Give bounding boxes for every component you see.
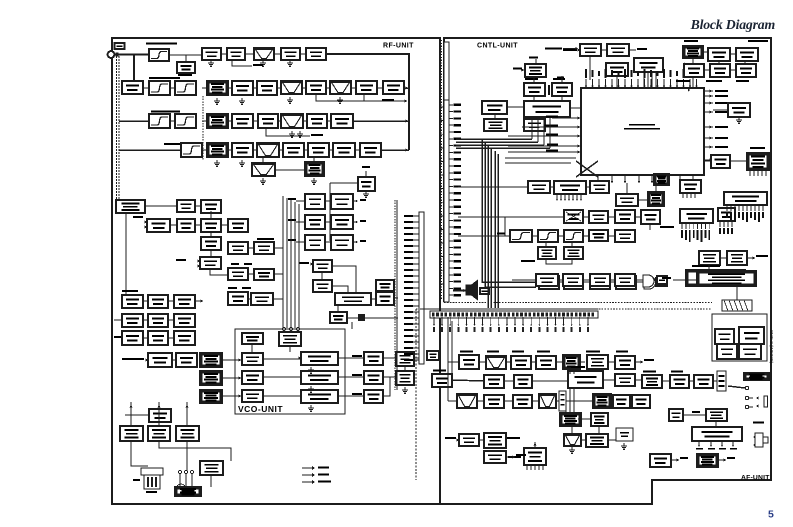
antenna circle bbox=[108, 51, 115, 58]
shift register R1 bbox=[680, 209, 713, 223]
dc reg bbox=[524, 119, 545, 131]
limiter amp bbox=[613, 395, 630, 408]
svg-text:5: 5 bbox=[768, 509, 774, 521]
MPU top pins bbox=[585, 79, 587, 88]
M3 bbox=[174, 295, 195, 308]
tx-rx R bbox=[718, 208, 735, 221]
RF amp A1 bbox=[202, 48, 221, 60]
D sub box bbox=[305, 162, 324, 176]
filter D sub bbox=[252, 163, 275, 176]
svg-text:Block Diagram: Block Diagram bbox=[690, 17, 776, 32]
tx-rx R pins bbox=[719, 221, 721, 227]
shift register R1 pins bbox=[681, 223, 683, 229]
jack pins bbox=[179, 471, 182, 474]
tx-rx af3 bbox=[514, 375, 532, 388]
R1a bbox=[305, 194, 325, 209]
af bus top wire bbox=[420, 308, 598, 310]
RF amp C bbox=[258, 114, 278, 128]
two cntl bbox=[524, 83, 545, 96]
af small bbox=[657, 276, 667, 284]
vco A bbox=[242, 353, 263, 365]
MPU right arrows bbox=[704, 90, 713, 92]
dark top bbox=[654, 174, 669, 185]
shift register vco bbox=[242, 333, 263, 344]
adjust unit bl bbox=[149, 409, 171, 422]
feed connector square bbox=[115, 53, 118, 57]
PLL bus wires bbox=[456, 138, 532, 140]
vco C bbox=[242, 390, 263, 402]
connector J2 upper part bbox=[444, 42, 449, 100]
tx-rx right A bbox=[396, 352, 414, 366]
dotted vertical col bbox=[202, 96, 204, 160]
svg-text:RF-UNIT: RF-UNIT bbox=[383, 43, 414, 50]
af top1 bbox=[536, 274, 558, 286]
loop filter A bbox=[364, 352, 383, 365]
M4 bbox=[122, 314, 143, 327]
tr2 bbox=[736, 48, 758, 61]
tx-rx 5 bbox=[564, 247, 583, 259]
band sw C bbox=[207, 114, 228, 128]
L8 bbox=[200, 257, 221, 269]
af r1 bbox=[563, 355, 580, 369]
volt reg bbox=[539, 276, 559, 289]
RF amp B2 bbox=[306, 81, 326, 94]
power conn af bbox=[697, 271, 756, 286]
L4 bbox=[228, 219, 248, 232]
data connector bbox=[747, 153, 769, 170]
filter C1 bbox=[149, 114, 170, 128]
buffer amp cntl bbox=[616, 194, 638, 206]
battery cells bbox=[144, 475, 160, 489]
low batt pins bbox=[682, 193, 684, 198]
duplexer bbox=[739, 327, 764, 344]
filter B2 bbox=[175, 81, 196, 95]
key light bbox=[528, 181, 550, 193]
dc amp bbox=[525, 64, 546, 77]
keyboard cpu bbox=[524, 101, 570, 117]
SP connector bbox=[717, 371, 726, 391]
connector J2 CNTL side bbox=[444, 100, 449, 302]
pa upper box bbox=[376, 280, 394, 291]
mixer L1 bbox=[147, 219, 170, 232]
filter C2 bbox=[175, 114, 196, 128]
key cntl bbox=[552, 83, 572, 96]
L9 bbox=[228, 268, 248, 280]
dc reg 2 bbox=[564, 276, 583, 289]
A5 bbox=[306, 48, 326, 60]
filter C3 bbox=[281, 114, 303, 128]
cntl top2 bbox=[607, 44, 629, 56]
mic filter 2 bbox=[148, 426, 170, 441]
tx-rx left C bbox=[200, 390, 222, 403]
RF amp A2 bbox=[227, 48, 245, 60]
power connector bbox=[686, 270, 745, 286]
speaker jack pins bbox=[745, 386, 748, 389]
M6 bbox=[174, 314, 195, 327]
low batt bbox=[680, 180, 701, 193]
MPU bottom pins bbox=[597, 175, 599, 183]
squelch sw bbox=[560, 413, 581, 426]
tx-rx dup bbox=[715, 329, 734, 344]
limiter af3 bbox=[484, 395, 504, 408]
M9 bbox=[174, 331, 195, 345]
limiter cntl bbox=[580, 44, 601, 56]
R2b bbox=[331, 215, 353, 229]
af mute bbox=[591, 413, 608, 426]
svg-text:VCO-UNIT: VCO-UNIT bbox=[238, 404, 283, 414]
speaker symbol mid bbox=[467, 286, 472, 295]
band sw D bbox=[207, 143, 228, 157]
X crossing bbox=[576, 161, 598, 177]
tx-rx af2 bbox=[432, 374, 452, 387]
mic amp bl2 bbox=[484, 451, 506, 463]
R3a bbox=[305, 235, 325, 250]
loop filter B bbox=[364, 371, 383, 384]
shift dark bbox=[648, 192, 664, 206]
vertical feed dotted 1 bbox=[116, 56, 118, 200]
ground under xtal bbox=[365, 191, 367, 194]
buffer amp2 bbox=[589, 211, 608, 223]
pre emphasis bbox=[524, 448, 546, 465]
data conn pins bbox=[749, 170, 751, 176]
wire to ant swt bbox=[115, 200, 118, 202]
rf sw 1 bbox=[177, 200, 195, 212]
duplexer block bbox=[712, 314, 767, 361]
limiter B bbox=[232, 81, 253, 95]
AF bus pins bbox=[433, 317, 435, 325]
tx-rx sw bbox=[313, 260, 332, 272]
br1 bbox=[699, 251, 720, 265]
mixer B bbox=[356, 81, 377, 94]
mixer C bbox=[307, 114, 327, 128]
AF VOL vertical connector bbox=[559, 391, 566, 411]
adjust A bbox=[177, 62, 195, 73]
B out bbox=[383, 81, 404, 94]
CNTL-UNIT border bbox=[112, 38, 771, 504]
compressor bbox=[484, 433, 506, 448]
filter B4 bbox=[330, 81, 351, 94]
af top2 bbox=[563, 274, 583, 286]
battery connector bbox=[141, 468, 163, 475]
AF-UNIT dashed border bbox=[415, 309, 417, 480]
MIC vertical box bbox=[616, 428, 633, 441]
trio junction bus bbox=[329, 183, 331, 241]
af trap bottom bbox=[564, 434, 581, 446]
MPU left arrows bbox=[552, 117, 581, 119]
tx-rx right mpu bbox=[728, 103, 750, 117]
mixer A4 bbox=[281, 48, 300, 60]
band sw B bbox=[207, 81, 228, 95]
squelch bbox=[459, 355, 479, 369]
wire parallel control bus bbox=[282, 196, 284, 328]
af top4 bbox=[615, 274, 635, 286]
pre emphasis pins bbox=[526, 465, 528, 470]
D2 bbox=[232, 143, 253, 157]
shift reg pins down bbox=[556, 194, 558, 200]
tone filter 3 bbox=[564, 230, 583, 242]
tr4 bbox=[710, 64, 730, 77]
small out bbox=[656, 278, 667, 286]
rx voltage B bbox=[301, 371, 338, 384]
svg-text:SME-2 (WE23B): SME-2 (WE23B) bbox=[769, 330, 774, 364]
af amp big bbox=[568, 371, 603, 388]
L6 bbox=[228, 242, 248, 254]
dotted vertical bbox=[394, 200, 396, 390]
L11 bbox=[228, 292, 248, 305]
M5 bbox=[148, 314, 168, 327]
af r2b bbox=[615, 374, 635, 386]
L12 bbox=[251, 293, 273, 305]
antenna connector hatched bbox=[722, 300, 752, 311]
filter B1 bbox=[149, 81, 170, 95]
af out bbox=[615, 356, 635, 369]
MPU bottom feed wires bbox=[626, 183, 628, 194]
pwr cntl bbox=[616, 276, 636, 289]
antenna sw bbox=[717, 344, 737, 359]
xtal osc bbox=[683, 46, 703, 58]
af amp 2 bbox=[670, 375, 689, 388]
af power amp bbox=[692, 427, 742, 441]
speaker jack label bbox=[744, 373, 769, 380]
D5 bbox=[308, 143, 329, 157]
mode sw bbox=[615, 210, 635, 223]
tx-rx mid bbox=[590, 181, 609, 193]
label to limiter bbox=[545, 48, 562, 50]
buffer amp vco bbox=[279, 332, 301, 346]
mic filter 3 bbox=[176, 426, 199, 441]
filter D3 bbox=[257, 143, 279, 157]
tx-rx 2 bbox=[711, 155, 730, 168]
spk box bbox=[480, 288, 489, 294]
dark connector square bbox=[358, 314, 365, 321]
dotted gap line RF-CNTL bbox=[441, 40, 443, 300]
af filt r3 bbox=[457, 394, 477, 408]
tx-rx af r3 bbox=[593, 394, 611, 408]
tx-rx left B bbox=[200, 371, 222, 385]
R3b bbox=[331, 235, 353, 250]
tx-rx right B bbox=[396, 371, 414, 385]
AF horizontal bus bbox=[430, 311, 598, 318]
attenuator bbox=[642, 375, 662, 388]
af r2a bbox=[484, 375, 504, 388]
angle adj bbox=[148, 353, 172, 367]
L7 bbox=[254, 242, 274, 254]
AND gate bbox=[644, 276, 656, 289]
legend arrows bbox=[302, 467, 313, 469]
C out bbox=[331, 114, 353, 128]
thermistor bbox=[122, 81, 143, 94]
wire ant to filter bbox=[114, 54, 149, 56]
R1b bbox=[331, 194, 353, 209]
dup2 bbox=[739, 344, 761, 359]
sp mic jack bbox=[175, 487, 201, 496]
D7 bbox=[360, 143, 381, 157]
vertical feed solid bbox=[133, 55, 135, 82]
svg-text:AF-UNIT: AF-UNIT bbox=[741, 475, 770, 482]
beep bbox=[669, 409, 683, 421]
shift reg driver bbox=[554, 181, 586, 194]
junction circles on VCO top bbox=[282, 327, 285, 330]
af power amp pins bbox=[698, 441, 700, 446]
filter A3 bbox=[254, 48, 274, 60]
af left vertical bbox=[447, 317, 449, 401]
VCO-UNIT border bbox=[235, 329, 345, 414]
amp sw bbox=[706, 409, 727, 421]
af filt r3b bbox=[539, 394, 556, 408]
wire vertical x397 bbox=[396, 200, 398, 390]
volume bbox=[513, 395, 532, 408]
ptt sw bbox=[650, 454, 671, 467]
pa unit bbox=[376, 292, 394, 305]
mic filter 1 bbox=[120, 426, 143, 441]
row A out wire bbox=[326, 54, 409, 150]
R2a bbox=[305, 215, 325, 229]
tx-rx left A bbox=[200, 353, 222, 367]
limiter2 bbox=[564, 210, 583, 223]
lcd vram bbox=[482, 101, 507, 114]
speaker amp bbox=[694, 375, 713, 388]
mic amp bl bbox=[459, 434, 479, 446]
br2 bbox=[727, 251, 747, 265]
tx-rx3 bbox=[641, 210, 660, 224]
M1 bbox=[122, 295, 143, 308]
lcd led driver bbox=[484, 119, 507, 131]
wire ant swt down bbox=[125, 213, 127, 295]
ANT box bbox=[115, 43, 125, 49]
L3 bbox=[201, 219, 221, 232]
tone filter 1 bbox=[510, 230, 532, 242]
tx-rx mute bbox=[586, 434, 608, 447]
xtal mid bbox=[358, 177, 375, 191]
D4 bbox=[283, 143, 304, 157]
tr3 bbox=[684, 64, 704, 77]
ant sw low bbox=[330, 312, 347, 323]
ant switch unit bbox=[116, 200, 145, 213]
M8 bbox=[148, 331, 168, 345]
CNTL bottom dashed border bbox=[444, 302, 712, 304]
mic filter 4 bbox=[200, 461, 223, 475]
filter row A bbox=[149, 49, 169, 61]
filter B3 bbox=[281, 81, 302, 94]
tr5 bbox=[736, 64, 756, 77]
M7 bbox=[122, 331, 143, 345]
L10 bbox=[254, 269, 274, 280]
small box below bus bbox=[427, 351, 439, 360]
shift register R2 pins bbox=[726, 205, 728, 211]
svg-text:CNTL-UNIT: CNTL-UNIT bbox=[477, 43, 518, 50]
EXT SP jack bbox=[755, 433, 763, 447]
LCD bbox=[634, 58, 663, 72]
connector J1 RF side bbox=[419, 212, 424, 364]
KY CPU bottom verticals bbox=[531, 118, 533, 139]
rf sw 2 bbox=[201, 200, 221, 213]
top key bbox=[606, 63, 628, 76]
tr1 bbox=[708, 48, 730, 61]
af amp 1 bbox=[511, 356, 531, 369]
vco B bbox=[242, 371, 263, 384]
tone filter 2 bbox=[538, 230, 558, 242]
limiter af bbox=[536, 356, 556, 369]
mod in bbox=[697, 454, 718, 467]
vertical feed dotted 2 bbox=[118, 56, 120, 200]
filter D1 bbox=[181, 143, 202, 157]
tx-rx af1 bbox=[587, 355, 608, 369]
tx-rx sw2 bbox=[313, 280, 332, 292]
main microprocessor bbox=[581, 88, 704, 175]
connector J2 left pins bbox=[441, 106, 445, 108]
L2 bbox=[177, 219, 195, 232]
filter out bbox=[615, 230, 635, 242]
af filter 1 bbox=[486, 356, 506, 369]
mic amp r3 bbox=[632, 395, 650, 408]
D6 bbox=[333, 143, 355, 157]
AND gate af bbox=[643, 275, 654, 287]
M10 bbox=[176, 353, 197, 367]
limiter3 bbox=[589, 230, 608, 241]
af top3 bbox=[590, 274, 610, 286]
af sw bbox=[590, 276, 610, 289]
L5 bbox=[201, 237, 221, 250]
dual module bbox=[335, 293, 371, 305]
limiter C bbox=[232, 114, 253, 128]
rx voltage C bbox=[301, 390, 338, 403]
M2 bbox=[148, 295, 168, 308]
rx voltage A bbox=[301, 352, 338, 365]
loop filter C bbox=[364, 390, 383, 403]
tx-rx 4 bbox=[538, 247, 556, 259]
RF-UNIT border bbox=[112, 38, 440, 504]
RF amp B bbox=[257, 81, 277, 95]
shift register R2 bbox=[724, 192, 767, 205]
